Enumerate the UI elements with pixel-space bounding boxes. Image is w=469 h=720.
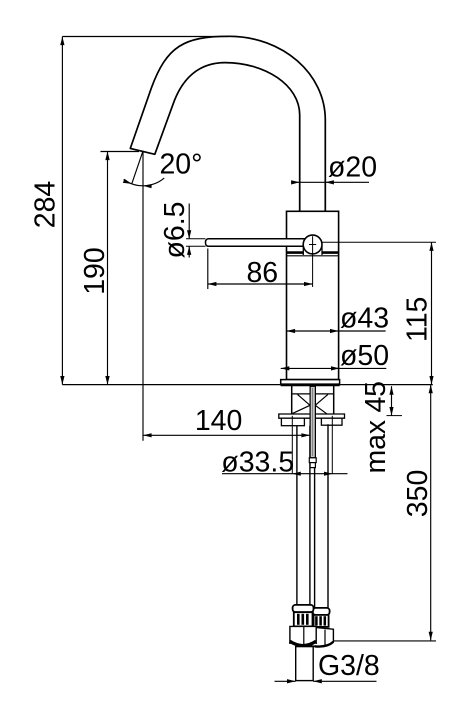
right fitting hex nut [312, 627, 334, 647]
dimension dia20 line [292, 181, 369, 183]
left fixing nut block [281, 418, 304, 426]
dimension max45 line [391, 386, 393, 415]
bold deck segment under base [281, 383, 340, 386]
dia33.5 right extension line [331, 416, 333, 474]
20 deg slanted axis line [132, 151, 143, 184]
pivot cross centerlines [309, 244, 316, 246]
86 left extension line [207, 249, 209, 290]
dimension dia43 line [287, 330, 386, 332]
svg-text:284: 284 [30, 181, 62, 229]
left fitting knurled ring [294, 612, 313, 626]
pivot circle (lever joint) [303, 235, 322, 254]
joint socket below pivot [303, 246, 322, 254]
20 deg angle arc [124, 178, 165, 186]
shank walls (dia 33.5) below deck [291, 386, 293, 416]
350 bottom extension line from right fitting [333, 640, 436, 642]
dimension 350 line [430, 385, 432, 641]
svg-text:140: 140 [195, 405, 243, 437]
dia33.5 left extension line [291, 416, 293, 474]
outlet vertical extension line (to 140 dim) [142, 151, 144, 441]
dimension 190 line [107, 152, 109, 385]
bracket top line [292, 393, 334, 395]
dimension dia33.5 line [222, 473, 348, 475]
dimension 86 line [208, 283, 313, 285]
right fitting knurled ring [314, 615, 329, 627]
dimension 115 line [431, 242, 433, 384]
right hose fitting collar [313, 608, 330, 615]
svg-text:ø33.5: ø33.5 [221, 446, 294, 478]
washer flange under deck [279, 414, 345, 418]
body seam thin line [287, 255, 339, 257]
outlet level extension line [101, 151, 140, 153]
svg-text:86: 86 [246, 257, 278, 289]
lever rod extension lines (to dia 6.5 dim) [186, 238, 206, 240]
left fitting hex nut [290, 626, 316, 644]
dimension 140 line [143, 434, 310, 436]
svg-text:ø43: ø43 [340, 303, 389, 335]
lever handle rod [206, 239, 313, 247]
right fixing nut block [321, 418, 342, 425]
svg-text:20°: 20° [159, 149, 202, 181]
svg-text:G3/8: G3/8 [318, 650, 380, 682]
left fitting hex bottom face [290, 641, 316, 645]
rod nut band [309, 458, 316, 463]
max45 washer extension line [387, 415, 403, 417]
spout tube (gooseneck) [130, 36, 325, 211]
svg-text:115: 115 [402, 297, 434, 342]
cone bracket left diagonals [292, 394, 310, 413]
svg-text:ø50: ø50 [340, 340, 389, 372]
left hose fitting collar [293, 605, 314, 612]
faucet body cylinder [287, 211, 339, 379]
dimension G3/8 lines [275, 680, 296, 682]
svg-text:max 45: max 45 [360, 381, 392, 473]
left flexible hose walls [296, 426, 298, 606]
115 top extension line (from pivot) [322, 241, 436, 243]
dimension dia50 line [281, 367, 387, 369]
top extension line (spout apex) [62, 36, 229, 38]
svg-text:ø6.5: ø6.5 [159, 201, 191, 258]
svg-text:190: 190 [79, 247, 111, 295]
right flexible hose walls [314, 418, 316, 608]
rod tail end [310, 463, 315, 468]
svg-text:ø20: ø20 [328, 152, 377, 184]
dimension 284 line [61, 37, 63, 385]
central threaded rod [310, 386, 315, 458]
svg-text:350: 350 [402, 470, 434, 518]
base plate (dia 50) [281, 380, 340, 385]
G3/8 threaded tip [296, 647, 314, 681]
mounting deck line [62, 384, 432, 386]
cone bracket right diagonals [315, 394, 328, 413]
body seam thick line [287, 251, 339, 254]
dimension dia6.5 lines [188, 204, 190, 239]
